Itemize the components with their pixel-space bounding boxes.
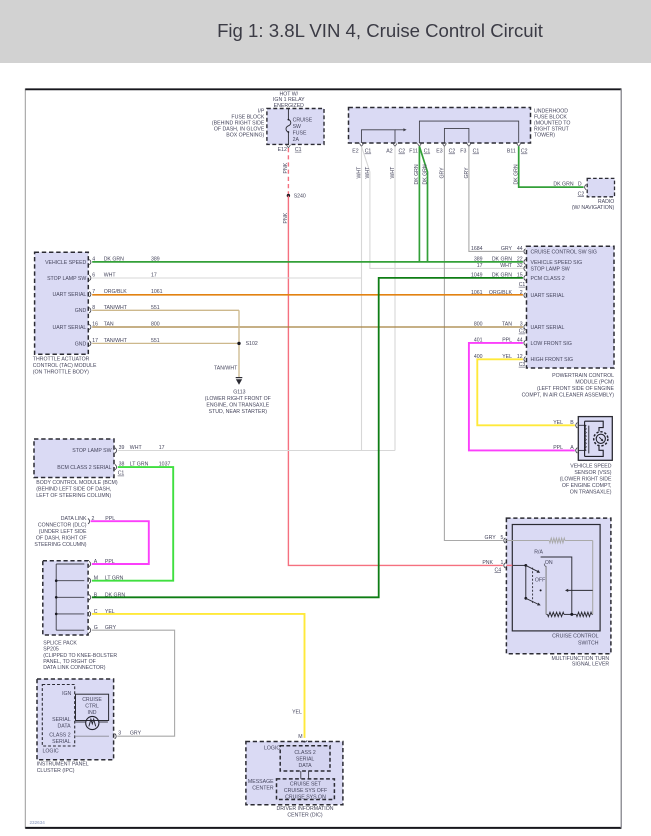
- splice pack internal bus: [55, 564, 84, 630]
- TAC pin 4 connector: [89, 257, 95, 265]
- TAC pin 8 connector: [89, 305, 95, 313]
- svg-text:PNK: PNK: [482, 560, 493, 566]
- body control module (BCM) box: [34, 439, 118, 499]
- splice pack pin M (LT GRN): [89, 576, 124, 584]
- svg-text:(UNDER LEFT SIDE: (UNDER LEFT SIDE: [39, 529, 87, 535]
- svg-text:LEFT OF STEERING COLUMN): LEFT OF STEERING COLUMN): [36, 493, 111, 499]
- svg-text:22: 22: [517, 257, 523, 263]
- svg-text:B11: B11: [507, 149, 516, 155]
- svg-text:UART SERIAL: UART SERIAL: [52, 325, 86, 331]
- wire DK GRN 389: TAC pin 4 to PCM pin 22 (vehicle speed sig): [92, 257, 523, 263]
- terminal E12 C1 of fuse block: [278, 145, 302, 153]
- svg-text:DK GRN: DK GRN: [553, 182, 573, 188]
- terminal E3 C2: [436, 143, 455, 154]
- svg-text:SIGNAL LEVER: SIGNAL LEVER: [572, 661, 610, 667]
- svg-text:OF ENGINE COMPT,: OF ENGINE COMPT,: [562, 483, 612, 489]
- svg-text:UNDERHOOD: UNDERHOOD: [534, 108, 568, 114]
- svg-text:(LEFT FRONT SIDE OF ENGINE: (LEFT FRONT SIDE OF ENGINE: [537, 386, 615, 392]
- svg-text:YEL: YEL: [553, 420, 563, 426]
- svg-text:17: 17: [151, 273, 157, 279]
- svg-text:WHT: WHT: [500, 263, 513, 269]
- svg-text:VEHICLE SPEED: VEHICLE SPEED: [570, 464, 611, 470]
- svg-text:WHT: WHT: [365, 166, 371, 179]
- wire TAN/WHT 551: TAC pin 8 to S102: [92, 305, 239, 311]
- svg-text:CRUISE CONTROL SW SIG: CRUISE CONTROL SW SIG: [531, 249, 597, 255]
- svg-text:IGN: IGN: [62, 691, 71, 697]
- svg-text:DK GRN: DK GRN: [423, 164, 429, 184]
- svg-text:STOP LAMP SW: STOP LAMP SW: [47, 276, 86, 282]
- svg-text:389: 389: [151, 257, 160, 263]
- VSS pin A (PPL): [553, 445, 577, 453]
- svg-text:CRUISE: CRUISE: [82, 697, 102, 703]
- svg-text:GND: GND: [75, 308, 87, 314]
- svg-text:F11: F11: [409, 149, 418, 155]
- underhood fuse block (component box): [349, 108, 571, 144]
- svg-text:YEL: YEL: [292, 710, 302, 716]
- radio (w/ navigation) module box: [572, 178, 615, 211]
- underhood internal wire E2 to A2 with feed arrow: [362, 128, 407, 143]
- switch on/off toggle arms from PNK pin 1: [506, 564, 545, 606]
- svg-text:R/A: R/A: [534, 550, 543, 556]
- svg-text:PNK: PNK: [283, 212, 289, 223]
- svg-text:VEHICLE SPEED SIG: VEHICLE SPEED SIG: [531, 260, 583, 266]
- wire GRY: F3 to PCM pin 44 (cruise control sw sig): [464, 146, 523, 251]
- splice pack pin A (PPL): [89, 559, 115, 567]
- svg-text:5: 5: [501, 535, 504, 541]
- svg-text:DATA LINK: DATA LINK: [61, 516, 87, 522]
- svg-text:SERIAL: SERIAL: [296, 756, 315, 762]
- svg-text:TAN: TAN: [104, 322, 114, 328]
- svg-text:SWITCH: SWITCH: [578, 640, 599, 646]
- PCM connector id C3: [519, 362, 526, 368]
- svg-text:ORG/BLK: ORG/BLK: [489, 290, 513, 296]
- wire WHT: E2 to stop lamp junction (down to BCM row): [356, 146, 362, 450]
- underhood internal wire E3 to F3: [444, 128, 469, 143]
- svg-text:(LOWER RIGHT SIDE: (LOWER RIGHT SIDE: [560, 477, 612, 483]
- svg-text:SW: SW: [293, 124, 301, 130]
- wire WHT 17: BCM pin 39 to stop lamp junction: [118, 450, 395, 452]
- VSS internal pickup coil: [578, 425, 586, 450]
- svg-text:G113: G113: [233, 389, 245, 395]
- svg-text:STOP LAMP SW: STOP LAMP SW: [72, 448, 111, 454]
- TAC pin 6 connector: [89, 273, 95, 281]
- wire GRY: splice pack pin G to IPC pin 3: [92, 630, 175, 736]
- svg-text:551: 551: [151, 338, 160, 344]
- switch R/A contact branch: [534, 550, 572, 614]
- svg-text:ENERGIZED: ENERGIZED: [274, 103, 305, 109]
- svg-text:LT GRN: LT GRN: [105, 576, 124, 582]
- vehicle speed sensor (VSS) box: [560, 417, 613, 496]
- IPC internal class 2 serial wire: [75, 735, 109, 737]
- svg-text:F3: F3: [460, 149, 466, 155]
- BCM pin 38 connector: [115, 462, 170, 470]
- I/P fuse block (component box): [212, 92, 324, 145]
- splice pack pin G (GRY): [89, 625, 116, 633]
- wire LT GRN 1037: BCM pin 38 to splice pack pin M: [92, 467, 173, 581]
- TAC pin 16 connector: [89, 322, 98, 330]
- VSS internal housing outline: [585, 421, 604, 456]
- wire TAN/WHT 551: TAC pin 17 to S102: [92, 338, 239, 344]
- svg-text:(CLIPPED TO KNEE-BOLSTER: (CLIPPED TO KNEE-BOLSTER: [43, 653, 117, 659]
- wire DK GRN: F11 to vehicle speed signal row (branch 2): [419, 146, 428, 262]
- data link connector (DLC) pin 2: [34, 516, 115, 548]
- switch wiper arm (set/coast): [540, 589, 593, 592]
- svg-text:SERIAL: SERIAL: [52, 739, 71, 745]
- svg-text:S240: S240: [294, 193, 306, 199]
- svg-text:PPL: PPL: [105, 559, 115, 565]
- svg-text:M: M: [298, 734, 302, 740]
- svg-text:1061: 1061: [151, 289, 163, 295]
- svg-text:B: B: [570, 420, 574, 426]
- PCM pin 12 connector (YEL 400): [474, 354, 526, 362]
- svg-text:CLASS 2: CLASS 2: [49, 732, 70, 738]
- svg-text:RADIO: RADIO: [598, 199, 614, 205]
- svg-text:GRY: GRY: [485, 535, 497, 541]
- svg-text:17: 17: [477, 263, 483, 269]
- svg-text:ENGINE, ON TRANSAXLE: ENGINE, ON TRANSAXLE: [206, 403, 269, 409]
- svg-text:UART SERIAL: UART SERIAL: [531, 325, 565, 331]
- svg-text:RIGHT STRUT: RIGHT STRUT: [534, 127, 570, 133]
- svg-text:ON TRANSAXLE): ON TRANSAXLE): [570, 489, 612, 495]
- svg-text:HIGH FRONT SIG: HIGH FRONT SIG: [531, 357, 574, 363]
- TAC pin 17 connector: [89, 338, 98, 346]
- terminal A2 C2: [386, 143, 405, 154]
- IPC cruise ctrl ind box: [76, 694, 109, 720]
- svg-text:STOP LAMP SW: STOP LAMP SW: [531, 266, 570, 272]
- terminal B11 C2: [507, 143, 528, 154]
- svg-text:CONNECTOR (DLC): CONNECTOR (DLC): [38, 522, 87, 528]
- doc number 232634: [30, 820, 46, 825]
- svg-text:44: 44: [517, 246, 523, 252]
- wire DK GRN: F11 to vehicle speed signal row (branch 1): [414, 146, 420, 262]
- terminal F11 C1: [409, 143, 430, 154]
- svg-text:TAN/WHT: TAN/WHT: [214, 365, 238, 371]
- svg-text:UART SERIAL: UART SERIAL: [531, 293, 565, 299]
- svg-text:PPL: PPL: [553, 445, 563, 451]
- svg-text:PNK: PNK: [283, 162, 289, 173]
- svg-text:CRUISE: CRUISE: [293, 117, 313, 123]
- IPC logic block (dashed): [42, 685, 74, 755]
- svg-text:LOGIC: LOGIC: [264, 745, 280, 751]
- svg-text:CRUISE SYS OFF: CRUISE SYS OFF: [284, 788, 327, 794]
- svg-text:SP205: SP205: [43, 647, 59, 653]
- splice pack pin C (YEL): [89, 609, 115, 617]
- svg-text:E3: E3: [436, 149, 442, 155]
- svg-text:CTRL: CTRL: [85, 703, 99, 709]
- svg-text:3: 3: [118, 731, 121, 737]
- svg-text:SPLICE PACK: SPLICE PACK: [43, 640, 77, 646]
- svg-text:DK GRN: DK GRN: [492, 257, 512, 263]
- svg-text:7: 7: [92, 289, 95, 295]
- svg-text:DK GRN: DK GRN: [514, 164, 520, 184]
- svg-text:PANEL, TO RIGHT OF: PANEL, TO RIGHT OF: [43, 659, 96, 665]
- svg-text:BOX OPENING): BOX OPENING): [226, 133, 264, 139]
- svg-text:CRUISE SET: CRUISE SET: [290, 781, 322, 787]
- svg-text:(BEHIND LEFT SIDE OF DASH,: (BEHIND LEFT SIDE OF DASH,: [36, 486, 111, 492]
- wire PPL: DLC pin 2 to splice pack pin A: [91, 521, 149, 564]
- svg-text:VEHICLE SPEED: VEHICLE SPEED: [45, 260, 86, 266]
- BCM connector id C1: [118, 471, 125, 477]
- PCM pin 22 connector (DK GRN 389): [474, 257, 526, 265]
- fuse CRUISE SW FUSE 2A: [286, 109, 313, 145]
- svg-text:DATA LINK CONNECTOR): DATA LINK CONNECTOR): [43, 665, 106, 671]
- svg-text:A2: A2: [386, 149, 392, 155]
- svg-text:DRIVER INFORMATION: DRIVER INFORMATION: [277, 806, 334, 812]
- svg-text:D: D: [578, 182, 582, 188]
- BCM pin 39 connector: [115, 445, 165, 453]
- switch pin 5 (GRY): [485, 535, 506, 543]
- svg-text:232634: 232634: [30, 820, 46, 825]
- svg-text:1: 1: [501, 560, 504, 566]
- multifunction turn signal lever box: [506, 518, 611, 667]
- switch ON contact rail: [544, 560, 553, 615]
- svg-text:FUSE: FUSE: [293, 130, 307, 136]
- DIC internal links: [301, 771, 309, 779]
- terminal F3 C1: [460, 143, 479, 154]
- svg-text:IND: IND: [88, 710, 97, 716]
- svg-text:DK GRN: DK GRN: [104, 257, 124, 263]
- svg-text:1061: 1061: [471, 290, 483, 296]
- radio pin D C2: [578, 182, 587, 198]
- DIC class 2 serial data block: [280, 746, 330, 771]
- svg-text:CRUISE CONTROL: CRUISE CONTROL: [552, 633, 599, 639]
- DIC pin M connector: [298, 734, 307, 742]
- wire WHT: A2 to BCM pin 39: [390, 146, 396, 450]
- svg-text:CENTER (DIC): CENTER (DIC): [287, 812, 322, 818]
- svg-text:COMPT, IN AIR CLEANER ASSEMBLY: COMPT, IN AIR CLEANER ASSEMBLY): [522, 392, 615, 398]
- underhood internal wire F11 to B11: [419, 121, 518, 143]
- svg-text:ON: ON: [545, 560, 553, 566]
- svg-text:3: 3: [520, 322, 523, 328]
- PCM pin 44 connector (GRY 1684): [471, 246, 526, 254]
- VSS pin B (YEL): [553, 420, 577, 428]
- svg-text:PCM CLASS 2: PCM CLASS 2: [531, 276, 565, 282]
- svg-text:CRUISE SYS ON: CRUISE SYS ON: [285, 794, 326, 800]
- PCM pin 44 connector (PPL 401): [474, 338, 526, 346]
- svg-text:TOWER): TOWER): [534, 133, 555, 139]
- svg-text:E2: E2: [352, 149, 358, 155]
- wire TAN 800: TAC pin 16 to PCM pin 3 (UART serial): [92, 322, 523, 328]
- switch internal GRY feed with resistor R1: [506, 538, 592, 614]
- wire PNK: fuse E12 to splice S240 (dashed): [283, 148, 289, 196]
- wire WHT 17: TAC pin 6 to stop lamp junction: [92, 273, 361, 279]
- svg-text:CONTROL (TAC) MODULE: CONTROL (TAC) MODULE: [33, 363, 97, 369]
- PCM pin 2 connector (ORG/BLK 1061): [471, 290, 526, 298]
- svg-text:GRY: GRY: [439, 167, 445, 179]
- switch pin 1 (PNK) C4: [482, 560, 505, 574]
- svg-text:POWERTRAIN CONTROL: POWERTRAIN CONTROL: [552, 373, 614, 379]
- PCM pin 3 connector (TAN 800): [474, 322, 526, 330]
- TAC pin 7 connector: [89, 289, 95, 297]
- wire TAN/WHT: S102 junction drop to ground G113: [214, 310, 239, 377]
- svg-text:DK GRN: DK GRN: [414, 164, 420, 184]
- terminal E2 C1: [352, 143, 371, 154]
- wire PPL 401: PCM pin 44 to VSS pin A (low front sig): [469, 343, 575, 451]
- svg-text:S102: S102: [246, 341, 258, 347]
- wire WHT: E2 to PCM pin 32 (stop lamp sw): [362, 146, 523, 268]
- svg-text:MODULE (PCM): MODULE (PCM): [575, 380, 614, 386]
- svg-text:THROTTLE ACTUATOR: THROTTLE ACTUATOR: [33, 357, 90, 363]
- svg-text:LOGIC: LOGIC: [43, 748, 59, 754]
- svg-text:CLASS 2: CLASS 2: [294, 750, 315, 756]
- svg-text:CLUSTER (IPC): CLUSTER (IPC): [37, 768, 75, 774]
- throttle actuator control (TAC) module box: [33, 252, 97, 375]
- title bar: [0, 0, 651, 63]
- PCM connector id C1: [519, 282, 526, 288]
- svg-text:551: 551: [151, 305, 160, 311]
- svg-text:STEERING COLUMN): STEERING COLUMN): [34, 542, 86, 548]
- svg-text:MESSAGE: MESSAGE: [248, 779, 274, 785]
- svg-text:ORG/BLK: ORG/BLK: [104, 289, 128, 295]
- svg-text:FUSE BLOCK: FUSE BLOCK: [534, 114, 567, 120]
- svg-text:UART SERIAL: UART SERIAL: [52, 292, 86, 298]
- svg-text:2: 2: [520, 290, 523, 296]
- svg-text:GND: GND: [75, 341, 87, 347]
- wire PNK: S240 to cruise control switch pin 1: [283, 196, 503, 566]
- wire YEL: splice pack pin C to DIC pin M: [92, 614, 305, 738]
- splice pack SP205 box: [43, 561, 118, 672]
- svg-text:Fig 1: 3.8L VIN 4, Cruise Cont: Fig 1: 3.8L VIN 4, Cruise Control Circui…: [217, 20, 544, 41]
- svg-text:CENTER: CENTER: [252, 786, 274, 792]
- svg-text:SERIAL: SERIAL: [52, 717, 71, 723]
- svg-text:SENSOR (VSS): SENSOR (VSS): [574, 470, 611, 476]
- svg-text:WHT: WHT: [104, 273, 117, 279]
- svg-text:OFF: OFF: [535, 577, 545, 583]
- svg-text:DATA: DATA: [58, 724, 72, 730]
- IPC cruise indicator lamp: [75, 716, 108, 729]
- PCM connector id C2: [519, 329, 526, 335]
- splice S240: [287, 193, 306, 199]
- switch bottom resistors R2 R3: [546, 612, 593, 616]
- VSS reluctor wheel with arrow: [594, 432, 608, 446]
- wire GRY: E3 to cruise switch pin 5: [439, 146, 503, 540]
- svg-text:M: M: [94, 576, 98, 582]
- svg-text:32: 32: [517, 263, 523, 269]
- svg-text:GRY: GRY: [501, 246, 513, 252]
- PCM pin 15 connector (DK GRN 1049): [471, 273, 526, 281]
- svg-text:OF DASH, RIGHT OF: OF DASH, RIGHT OF: [36, 535, 87, 541]
- svg-text:LOW FRONT SIG: LOW FRONT SIG: [531, 341, 572, 347]
- svg-text:BCM CLASS 2 SERIAL: BCM CLASS 2 SERIAL: [57, 465, 111, 471]
- driver information center (DIC) box: [246, 742, 343, 819]
- svg-text:389: 389: [474, 257, 483, 263]
- svg-text:TAN/WHT: TAN/WHT: [104, 338, 128, 344]
- svg-text:WHT: WHT: [356, 166, 362, 179]
- svg-text:2A: 2A: [293, 137, 300, 143]
- svg-text:A: A: [94, 559, 98, 565]
- svg-text:GRY: GRY: [130, 731, 142, 737]
- splice S102: [237, 341, 258, 347]
- svg-text:WHT: WHT: [390, 166, 396, 179]
- svg-text:TAN/WHT: TAN/WHT: [104, 305, 128, 311]
- ground G113: [205, 378, 271, 415]
- svg-text:E12: E12: [278, 147, 287, 153]
- svg-text:(W/ NAVIGATION): (W/ NAVIGATION): [572, 205, 615, 211]
- svg-text:A: A: [570, 445, 574, 451]
- powertrain control module (PCM) box: [522, 246, 615, 398]
- splice pack pin B (DK GRN): [89, 592, 125, 600]
- cruise control switch box: [512, 525, 600, 647]
- svg-text:(ON THROTTLE BODY): (ON THROTTLE BODY): [33, 369, 89, 375]
- svg-text:INSTRUMENT PANEL: INSTRUMENT PANEL: [37, 761, 89, 767]
- svg-text:GRY: GRY: [464, 167, 470, 179]
- PCM pin 32 connector (WHT 17): [477, 263, 526, 271]
- wire YEL 400: PCM pin 12 to VSS pin B (high front sig): [477, 359, 575, 425]
- svg-text:800: 800: [474, 322, 483, 328]
- wire DK GRN 1049: splice pack pin B to PCM pin 15 (class 2): [92, 278, 523, 597]
- wire ORG/BLK 1061: TAC pin 7 to PCM pin 2 (UART serial): [92, 289, 523, 295]
- wire DK GRN: B11 to radio: [514, 146, 584, 187]
- svg-text:800: 800: [151, 322, 160, 328]
- DIC message center block (CRUISE SET / SYS OFF / SYS ON): [277, 779, 335, 801]
- svg-text:1684: 1684: [471, 246, 483, 252]
- IPC pin 3 connector (GRY): [115, 731, 142, 739]
- svg-text:(MOUNTED TO: (MOUNTED TO: [534, 121, 570, 127]
- svg-text:BODY CONTROL MODULE (BCM): BODY CONTROL MODULE (BCM): [36, 480, 118, 486]
- svg-text:TAN: TAN: [502, 322, 512, 328]
- instrument panel cluster (IPC) box: [37, 679, 114, 774]
- svg-text:STUD, NEAR STARTER): STUD, NEAR STARTER): [209, 409, 268, 415]
- svg-text:(LOWER RIGHT FRONT OF: (LOWER RIGHT FRONT OF: [205, 396, 271, 402]
- svg-text:DATA: DATA: [299, 763, 313, 769]
